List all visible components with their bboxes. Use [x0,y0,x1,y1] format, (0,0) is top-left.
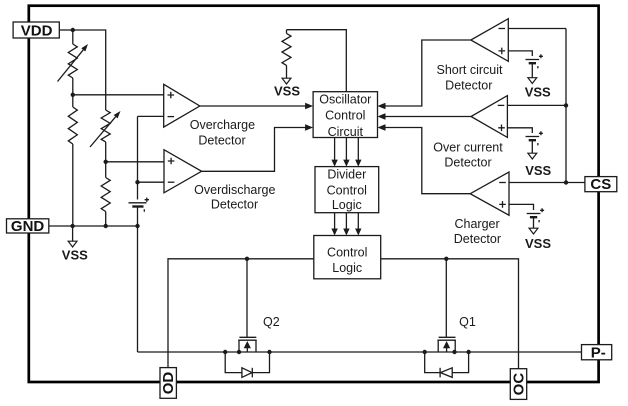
svg-text:Detector: Detector [444,155,491,169]
wire short-circuit output [385,40,471,106]
op-amp charger detector [470,172,509,215]
ground VSS (GND) [68,241,77,247]
op-amp over current detector [471,96,507,138]
block oscillator control circuit [313,92,377,139]
svg-text:Detector: Detector [445,79,492,93]
svg-text:VSS: VSS [62,248,88,263]
svg-text:Control: Control [327,184,367,198]
svg-text:VDD: VDD [21,22,53,39]
svg-text:VSS: VSS [525,84,551,99]
node Q2 gate tap [245,257,249,261]
node GND rail junctions [70,224,139,228]
wire Q1 gate drive [445,259,447,338]
wire charger output [385,128,471,194]
block control logic [314,236,381,279]
svg-text:P-: P- [591,344,606,361]
wire reference column: overcharge - down to battery B1 [137,116,139,199]
wire overcharge output [200,105,306,107]
wire R1 to node B [72,78,74,95]
right sense net vertical [565,29,567,183]
svg-text:Over current: Over current [433,140,503,154]
wire overdischarge output [202,128,306,172]
wire GND rail VSS stub [72,226,74,241]
wire Q2 gate drive [246,259,248,338]
diode D1 (body diode of Q1) [425,352,469,377]
ground VSS (over-current) [528,153,537,159]
wire R2 to GND rail [72,144,74,226]
block divider control logic [315,167,379,213]
op-amp overdischarge detector [164,150,202,193]
node reference branch [135,180,139,184]
wire charger + to battery B4 [509,204,534,210]
pin OD [160,368,177,399]
wire oscillator to divider [357,138,359,162]
svg-text:Q1: Q1 [459,315,476,329]
svg-text:VSS: VSS [525,163,551,178]
wire divider to control [345,213,347,231]
wire over-current output [385,116,472,118]
svg-text:CS: CS [590,176,611,193]
pin VDD [13,22,59,39]
svg-text:Logic: Logic [332,261,362,275]
wire node C to overdischarge + input [106,161,164,163]
pin GND [7,218,49,235]
resistor R3 (variable) [101,110,110,142]
diode D2 (body diode of Q2) [225,352,269,377]
GND rail [49,225,138,227]
svg-text:OD: OD [160,372,177,395]
wire short-circuit - input [508,28,566,30]
svg-text:Detector: Detector [211,198,258,212]
transistor Q1 [437,337,456,352]
ground VSS (top) [282,78,291,84]
resistor R4 [105,162,107,178]
wire R3 to node C [105,142,107,162]
node VDD junction [71,28,75,32]
wire charger - input / CS net [509,182,585,184]
wire R4 to GND rail [105,212,107,227]
wire oscillator to divider [334,138,336,162]
svg-text:VSS: VSS [525,236,551,251]
node Q1 gate tap [444,257,448,261]
svg-text:Q2: Q2 [263,315,280,329]
resistor R5 [286,30,288,34]
wire overdischarge - input branch [138,181,165,183]
svg-text:Charger: Charger [455,217,500,231]
node sense net junctions [564,103,568,184]
ground VSS (short-circuit) [528,78,537,84]
pin CS [585,176,617,193]
wire divider to control [334,213,336,231]
wire oscillator feed from resistor R5 [287,30,347,92]
battery B3 [526,137,540,141]
wire overcharge - input branch [138,115,164,117]
wire node B to overcharge + input [73,94,164,96]
resistor R1 (variable) [68,44,77,78]
op-amp short circuit detector [471,19,509,62]
wire over-current + to battery B3 [507,128,532,133]
svg-text:Divider: Divider [327,168,366,182]
wire col1 upper lead [72,30,74,44]
transistor Q2 [238,337,257,352]
resistor R2 [72,95,74,107]
node Q1 source/drain junctions [423,350,471,354]
node B (divider tap 1) [71,93,75,97]
wire VDD to node A [59,29,73,31]
wire oscillator to divider [345,138,347,162]
svg-text:Overcharge: Overcharge [190,118,255,132]
svg-text:Detector: Detector [454,232,501,246]
battery B2 [526,60,540,64]
svg-text:Detector: Detector [198,134,245,148]
wire node A to col2 top [73,30,106,110]
node C (divider tap 2) [104,160,108,164]
pin P- [582,344,612,361]
svg-text:Short circuit: Short circuit [437,63,504,77]
svg-text:VSS: VSS [274,84,300,99]
svg-text:GND: GND [11,218,45,235]
pin OC [510,369,527,400]
svg-text:Control: Control [325,109,365,123]
source rail (bottom wire to P-) [138,351,582,353]
wire short-circuit + to battery B2 [508,51,532,56]
wire control logic right output to OC [381,259,519,369]
svg-text:Circuit: Circuit [328,125,364,139]
ground VSS (charger) [529,228,538,234]
battery B4 [527,214,541,218]
svg-text:OC: OC [510,373,527,396]
wire battery B1 to GND rail and down to source rail [137,207,139,353]
op-amp overcharge detector [164,84,200,127]
battery B1 [129,203,147,207]
svg-text:Control: Control [327,245,367,259]
svg-text:Logic: Logic [332,198,362,212]
svg-text:Overdischarge: Overdischarge [194,183,275,197]
wire divider to control [357,213,359,231]
wire over-current - input [507,104,566,106]
wire control logic left output to OD [168,259,314,368]
node Q2 source/drain junctions [223,350,272,354]
svg-text:Oscillator: Oscillator [319,93,371,107]
